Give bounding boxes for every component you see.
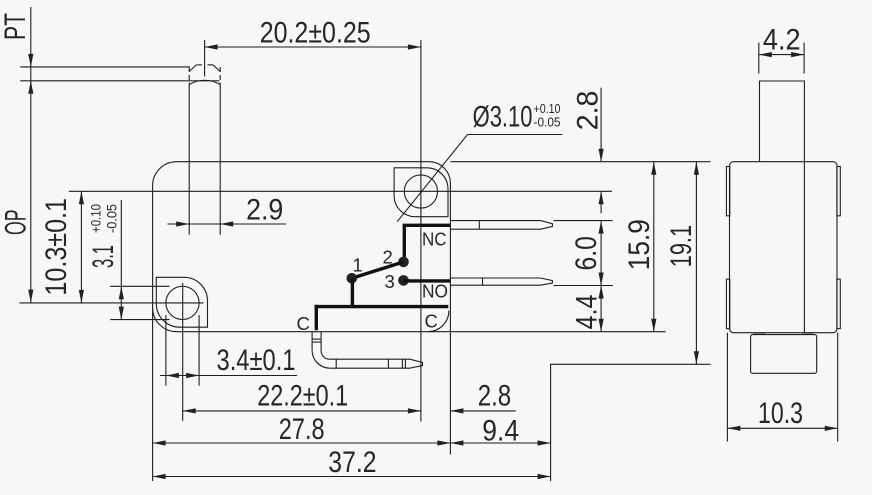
svg-text:27.8: 27.8 [279,413,325,446]
svg-text:OP: OP [0,210,33,236]
dim PT [0,7,33,81]
svg-text:PT: PT [0,13,32,40]
dim 4.4 [571,286,604,332]
circuit: contact node 1 [347,273,358,284]
svg-text:4.2: 4.2 [763,24,801,57]
side view plunger [760,81,805,162]
svg-text:37.2: 37.2 [328,446,376,479]
side view plunger boss line [803,162,805,333]
side view tab lower left [726,279,729,329]
dim 22.2±0.1 [183,380,421,414]
ref line plunger released top [20,66,190,68]
svg-text:15.9: 15.9 [623,219,656,270]
svg-text:10.3±0.1: 10.3±0.1 [40,198,73,296]
side view tab upper right [837,167,840,216]
svg-text:22.2±0.1: 22.2±0.1 [257,380,348,413]
svg-text:4.4: 4.4 [571,295,604,330]
mounting ear bottom-left [156,277,207,327]
svg-text:2: 2 [383,246,393,267]
dim 2.9 plunger [168,194,287,227]
svg-text:2.8: 2.8 [572,91,605,131]
side view bottom terminal [751,335,817,374]
ref line body bottom extended [450,331,665,333]
extension line body left [152,308,154,481]
dim 3.4±0.1 [160,315,297,386]
extension line body right [449,332,451,455]
dim 27.8 [153,413,451,446]
dim 19.1 [665,162,699,365]
svg-text:9.4: 9.4 [482,415,519,448]
centerline horizontal through bottom hole [20,302,204,304]
mounting hole top-right [404,175,437,208]
centerline horizontal through top hole [69,190,612,192]
mounting hole bottom-left [166,286,199,319]
NO terminal blade [450,278,552,285]
svg-text:Ø3.10: Ø3.10 [473,100,533,133]
svg-text:C: C [297,313,310,334]
dim 9.4 [450,415,550,448]
plunger [189,80,220,234]
common terminal bend arc [428,311,449,332]
plunger released position (dashed) [189,67,220,81]
dim 4.2 [759,24,804,74]
dim 10.3±0.1 [40,191,84,303]
svg-text:+0.10: +0.10 [534,102,561,116]
svg-text:-0.05: -0.05 [534,115,561,129]
NC terminal blade [450,221,552,230]
dim OP [0,81,33,303]
svg-text:10.3: 10.3 [758,397,803,430]
svg-text:19.1: 19.1 [665,225,698,267]
svg-text:-0.05: -0.05 [104,204,119,233]
dim 3.1 +0.10/-0.05 [87,200,170,320]
common terminal bottom blade [330,359,423,368]
side view tab upper left [726,167,729,216]
switch body outline [153,162,451,332]
dim 15.9 [623,162,656,332]
svg-text:NC: NC [422,229,447,250]
svg-text:+0.10: +0.10 [89,204,104,233]
common terminal neck below body [312,332,330,369]
dim 6.0 [554,221,614,286]
side view tab lower right [837,279,840,329]
circuit: NO link [404,279,451,282]
circuit: common bar [315,305,449,308]
ref line body top extended [450,161,710,163]
circuit: lever arm [352,262,404,278]
svg-text:C: C [425,311,438,332]
dim 2.8 bottom [450,380,515,414]
svg-text:20.2±0.25: 20.2±0.25 [260,16,371,49]
dim 20.2±0.25 [205,16,421,76]
svg-text:6.0: 6.0 [570,236,603,270]
side view body [730,162,838,333]
mounting ear top-right [394,168,448,217]
dim 37.2 [153,446,551,479]
svg-text:2.8: 2.8 [478,380,512,413]
circuit: NC link [404,225,450,259]
circuit: common post [351,278,354,306]
svg-text:2.9: 2.9 [246,194,283,227]
circuit: contact node 2 [398,257,409,268]
svg-text:3: 3 [385,271,395,292]
svg-text:3.4±0.1: 3.4±0.1 [217,344,296,377]
centerline vertical through top hole [420,40,422,422]
ref line terminal bottom extended [550,363,711,365]
svg-text:3.1: 3.1 [87,245,120,268]
dim 10.3 side [727,333,837,442]
circuit: contact node 3 [398,275,409,286]
ref line plunger free top [20,80,219,82]
extension line terminal tips [550,364,552,481]
dim 2.8 top right [572,88,605,214]
svg-text:1: 1 [353,255,363,276]
circuit: C stub [315,305,318,330]
svg-text:NO: NO [422,280,448,301]
centerline vertical through bottom hole [182,283,184,421]
dim Ø3.10 +0.10/-0.05 leader [397,100,562,221]
